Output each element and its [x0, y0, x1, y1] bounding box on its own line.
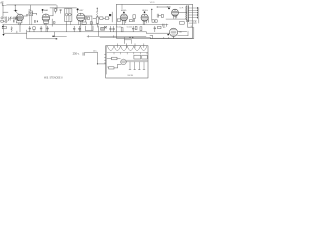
tube V4 pins [123, 20, 126, 24]
IF transformer T1 box [29, 11, 33, 16]
wire F1 leads [107, 58, 121, 60]
wire left link [150, 36, 153, 39]
resistor R8 vertical [121, 28, 123, 32]
wire vol to bus [98, 26, 100, 36]
wire coil tap to V1 cap [14, 5, 16, 10]
junction dot V5 plate [151, 9, 152, 10]
capacitor C12 [29, 26, 31, 32]
tube V1 grid hatch [17, 14, 23, 20]
speaker field choke [180, 22, 185, 25]
tube V5 grid hatch [141, 14, 147, 20]
HT rail in pack [126, 60, 147, 62]
main amplifier box [116, 4, 192, 38]
wire jack to coil [3, 17, 5, 19]
power unit inner edge [106, 46, 108, 74]
capacitor can 2 [142, 55, 147, 59]
tick up [113, 36, 115, 38]
wire IF2 ground [66, 21, 68, 31]
junction blob [52, 36, 54, 37]
mains plug [83, 53, 84, 56]
svg-text:L.S.: L.S. [193, 22, 197, 24]
wire left feeder [2, 5, 4, 16]
speaker terminal strip vertical [198, 8, 200, 24]
tube V4 grid hatch [121, 14, 127, 20]
svg-text:80: 80 [163, 27, 166, 29]
electrolytic C20 [143, 62, 145, 70]
transformer secondary line [107, 52, 148, 54]
capacitor grid C2 [14, 17, 17, 20]
wave trap box [2, 26, 6, 29]
wire V5 plate [147, 17, 149, 23]
capacitor plate mark [53, 22, 55, 24]
HT line [100, 36, 150, 38]
wire T2 lead to bus [70, 22, 72, 25]
wire top cap lead V3 [77, 10, 79, 12]
IF transformer T1 winding 2 [31, 12, 33, 14]
tube V5 top cap [144, 11, 146, 13]
wire coil to grid cluster [10, 17, 13, 19]
resistor V3 bias [82, 22, 86, 24]
tube V1 envelope [17, 14, 24, 21]
capacitor can 1 [134, 55, 141, 59]
resistor R15 vertical [11, 27, 12, 32]
svg-text:25.000: 25.000 [116, 27, 122, 29]
svg-text:SM 80: SM 80 [127, 75, 134, 77]
wire pack internal [108, 64, 122, 68]
mains transformer scallops [107, 46, 147, 51]
mains wire [85, 52, 106, 64]
capacitor C8 [133, 19, 134, 22]
tube V3 top cap [77, 8, 79, 10]
fuse box F1 [112, 57, 118, 60]
wire V2 cathode to bus [45, 24, 47, 32]
resistor R5 [100, 17, 103, 19]
junction dot coil tap [15, 5, 16, 6]
coupling box V4-V5 [133, 15, 136, 18]
rectifier V7 base dot [167, 34, 169, 36]
wire V1 plate [23, 15, 26, 17]
resistor V2 cathode [44, 21, 49, 23]
IF transformer T2 leads [67, 9, 70, 20]
wire right riser [193, 27, 195, 38]
rectifier V7 internals [171, 30, 176, 35]
wire detector [85, 16, 92, 31]
svg-text:A.C.: A.C. [93, 50, 97, 53]
IF T1 bottom leads [30, 16, 32, 25]
svg-text:O.P.: O.P. [180, 8, 184, 10]
svg-text:6A8: 6A8 [44, 9, 49, 12]
output transformer core [187, 6, 188, 22]
resistor R6 [105, 17, 109, 19]
resistor R4 body (coil squiggle) [96, 11, 98, 18]
capacitor C14 [47, 26, 49, 32]
tube V5 pins [143, 21, 146, 25]
tube V2 grid hatch [43, 14, 50, 20]
capacitor C6 [110, 26, 112, 32]
svg-text:50.000: 50.000 [127, 27, 133, 29]
tube V1 top cap [15, 10, 17, 12]
capacitor tuning C1 [8, 17, 12, 22]
speaker lower leads [189, 21, 197, 23]
HT line right [150, 38, 194, 40]
tube V4 envelope [121, 14, 128, 21]
capacitor C4 [60, 9, 62, 13]
pot hatch [101, 28, 103, 31]
capacitor C7 [113, 26, 115, 32]
ground symbol [2, 34, 4, 36]
capacitor V3 cathode C5 [85, 16, 86, 22]
resistor R10 [135, 26, 137, 29]
wire V2 plate to top [50, 8, 54, 16]
svg-text:W.B. STENODE 8: W.B. STENODE 8 [44, 78, 63, 80]
AVC bus left [4, 32, 27, 34]
tube V3 envelope [77, 13, 85, 21]
B- line 1 [27, 38, 57, 40]
tube V2 pins [44, 21, 47, 25]
wire aerial to mixer [56, 5, 58, 10]
svg-text:V8 9: V8 9 [150, 2, 155, 4]
component small box D1 [158, 26, 161, 28]
junction dots HT [129, 37, 130, 38]
wire V1 cathode to bus [19, 23, 21, 31]
winding taps [114, 53, 147, 55]
wire AVC drop [53, 32, 55, 37]
tube V6 pins [173, 16, 176, 19]
tube V2 envelope [42, 14, 50, 22]
wire grid feed V6 [157, 6, 168, 8]
junction tick 2 [87, 35, 89, 37]
wire rectifier filament 2 [178, 31, 188, 36]
power unit box [106, 46, 148, 78]
wire earth drop [3, 25, 5, 34]
capacitor C13 [40, 26, 42, 32]
wire T1 to V2 grid [33, 14, 37, 15]
wire down left [26, 30, 28, 39]
B- line 2 [87, 35, 146, 37]
wire rectifier to transformer [178, 31, 187, 33]
wire screen bus [50, 7, 77, 9]
switch box S1 [109, 67, 114, 69]
resistor R7 [117, 19, 120, 21]
tube V4 top cap [123, 12, 125, 14]
wire heater link [54, 35, 66, 37]
tube V3 pins [79, 21, 83, 25]
tube V5 envelope [141, 14, 148, 21]
capacitor coupling C3 [27, 14, 28, 16]
wire R4 down [96, 16, 98, 19]
wire V5 plate riser [151, 9, 153, 20]
junction dot det [97, 18, 98, 19]
wire V4 screen stub [121, 4, 123, 8]
top cap clamp V1 [14, 10, 17, 12]
IF T2 divider [67, 9, 69, 22]
wire V6 bottom rail [166, 18, 187, 20]
wire det ground [85, 26, 93, 30]
earth input jack [1, 20, 5, 22]
wire R16 down [33, 29, 35, 31]
tube V3 grid hatch [77, 13, 84, 20]
wire VR1 wiper down [97, 23, 99, 27]
output transformer primary winding [185, 6, 188, 19]
svg-text:IF1: IF1 [28, 9, 31, 11]
junction dot HT2 [132, 37, 133, 38]
IF transformer T2 secondary [69, 13, 72, 16]
coupling cluster C11 [157, 14, 161, 17]
capacitor dark block C21 [109, 14, 111, 16]
capacitor dark mark [36, 21, 39, 23]
wire aerial down-lead [1, 3, 3, 5]
wire V6 plate out [179, 12, 187, 14]
IF transformer T2 box [65, 9, 72, 22]
rectifier in pack [121, 59, 127, 65]
svg-text:80: 80 [179, 32, 182, 34]
inductor antenna coil L1 [5, 17, 7, 23]
wire HT to pack [124, 37, 126, 43]
capacitor C15 [73, 26, 75, 32]
resistor R14 [161, 14, 163, 17]
tube V1 pins [19, 20, 22, 24]
tube V2 top cap [42, 9, 44, 11]
junction X [104, 26, 107, 28]
resistor R13 [155, 20, 157, 22]
capacitor C16 [78, 26, 80, 32]
svg-text:6K7: 6K7 [80, 10, 85, 12]
resistor screen R2 [55, 9, 57, 12]
resistor V1 cathode [16, 21, 22, 23]
resistor R9 [129, 20, 132, 22]
bus jog [146, 32, 169, 33]
speaker terminals [196, 7, 198, 18]
HT jog [149, 37, 151, 38]
capacitor V1 grid plates [12, 20, 15, 22]
resistor grid R1 [16, 17, 18, 20]
wire V2 plate lower [51, 19, 53, 26]
wire top cap lead V1 [16, 12, 19, 15]
resistor R12 [152, 20, 154, 22]
box terminal ticks [104, 55, 105, 63]
potentiometer volume VR1 [96, 17, 99, 23]
resistor R11 [140, 27, 142, 31]
IF transformer T1 windings [29, 12, 31, 14]
wire top cap lead V2 [42, 11, 44, 13]
bias components on bus [163, 24, 167, 27]
tick marks HT [164, 37, 174, 38]
AVC bus main [27, 31, 147, 33]
junction dot grid feed [157, 7, 158, 8]
wire T1 to aerial line [30, 5, 32, 11]
wire rectifier cathode down [173, 36, 175, 38]
IF transformer T2 primary [65, 13, 68, 16]
wire band filter stub [3, 11, 8, 13]
resistor R16 [33, 27, 35, 30]
aerial input jack [1, 17, 3, 19]
wire stub [16, 31, 18, 33]
lead ticks into box [118, 44, 144, 48]
speaker leads [189, 8, 197, 18]
capacitor det [90, 22, 92, 24]
resistor V3 cathode R3 [88, 17, 90, 20]
electrolytic C17 [129, 62, 131, 70]
mains connector dot [97, 63, 98, 64]
rectifier V7 envelope [169, 28, 177, 36]
ground bus [3, 24, 169, 26]
tube V6 envelope [172, 9, 179, 16]
wave trap dot [2, 26, 3, 27]
inductor aerial coupling coil (long loop line) [3, 3, 57, 6]
tube V6 grid hatch [172, 9, 178, 15]
resistor diode load R4 [96, 8, 98, 12]
wire detector line [93, 18, 109, 20]
electrolytic C18 [134, 62, 136, 70]
tube V6 top cap [168, 7, 170, 9]
wire top to R4 [97, 8, 98, 9]
junction dot aerial [3, 5, 4, 6]
electrolytic C19 [138, 62, 140, 70]
wire transformer bottom [188, 20, 193, 27]
wire R2 stub [55, 8, 57, 13]
B- end mark [56, 38, 58, 39]
potentiometer track hatched [101, 28, 105, 31]
rectifier pack internals [121, 61, 126, 63]
capacitor V2 grid plates [33, 20, 36, 22]
capacitor C9 [132, 26, 134, 32]
wire V3 cathode to bus [80, 24, 82, 32]
svg-text:230 v.: 230 v. [73, 52, 80, 56]
capacitor C10 [154, 26, 156, 32]
wire C21 vertical [111, 12, 113, 22]
wire pack link [125, 40, 132, 44]
